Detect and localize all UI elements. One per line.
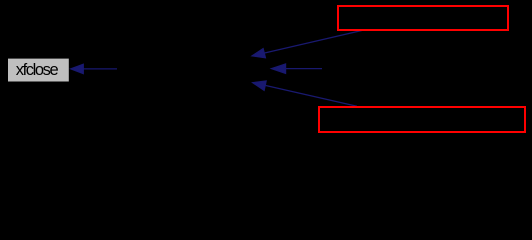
node top-right (red, truncated) <box>338 6 508 30</box>
wire edge1: middle node to xfclose <box>71 64 118 74</box>
node xfclose <box>8 59 69 82</box>
node bottom-right (red, truncated) <box>319 107 525 132</box>
wire edge3: right invisible node to middle node <box>271 64 322 74</box>
wire edge4: bottom-right red node to middle node <box>252 81 357 106</box>
svg-text:xfclose: xfclose <box>16 61 59 79</box>
wire edge2: top-right red node to middle node <box>252 30 365 58</box>
